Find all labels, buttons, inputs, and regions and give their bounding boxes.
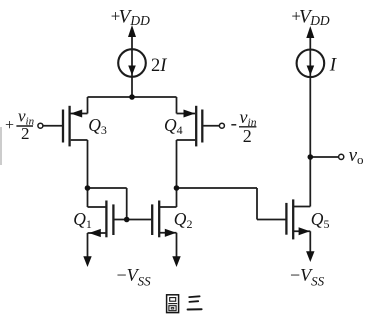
svg-text:DD: DD <box>129 13 150 28</box>
svg-text:Q1: Q1 <box>73 209 92 231</box>
svg-text:−VSS: −VSS <box>290 265 325 289</box>
svg-text:DD: DD <box>309 13 330 28</box>
svg-text:Q3: Q3 <box>88 115 107 137</box>
svg-text:2: 2 <box>243 126 252 146</box>
svg-text:2: 2 <box>21 124 30 143</box>
svg-text:−VSS: −VSS <box>117 265 152 289</box>
svg-text:2I: 2I <box>151 56 167 76</box>
svg-text:I: I <box>329 55 338 76</box>
svg-text:Q4: Q4 <box>164 115 183 137</box>
svg-text:+: + <box>5 117 14 134</box>
svg-text:-: - <box>231 114 237 135</box>
svg-text:Q5: Q5 <box>311 209 330 231</box>
svg-text:Q2: Q2 <box>174 209 193 231</box>
svg-text:vo: vo <box>349 145 364 167</box>
